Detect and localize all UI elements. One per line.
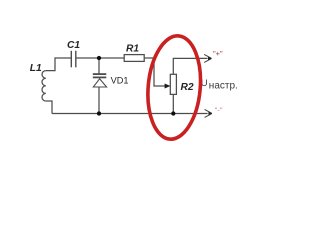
wire R2 bottom (172, 94, 174, 113)
node C junction dot (R2 bottom rail) (171, 111, 175, 115)
potentiometer R2 box (170, 74, 176, 94)
inductor L1 (42, 71, 46, 101)
minus output arrowhead (205, 109, 212, 117)
wiper arrowhead into R2 (165, 84, 171, 89)
svg-text:C1: C1 (67, 40, 80, 51)
diode VD1 triangle (93, 79, 106, 87)
svg-text:"+": "+" (213, 49, 223, 58)
svg-text:"-": "-" (215, 106, 223, 115)
svg-text:R1: R1 (126, 44, 139, 55)
svg-text:R2: R2 (181, 82, 194, 93)
svg-text:VD1: VD1 (111, 76, 129, 86)
bottom rail wire (52, 113, 208, 115)
wire R1 to wiper (144, 58, 165, 86)
capacitor C1 (71, 51, 76, 68)
wire VD1 vertical (98, 58, 100, 114)
plus output arrowhead (204, 54, 211, 62)
wire L1 bottom to bottom rail (46, 101, 52, 114)
red highlight ellipse (144, 34, 205, 142)
wire L1 top to top rail (46, 58, 72, 71)
svg-text:настр.: настр. (209, 81, 238, 92)
wire C1 to R1 (76, 57, 124, 59)
resistor R1 (124, 55, 144, 62)
node A junction dot (C1/VD1/R1) (97, 56, 101, 60)
diode VD1 (varicap) bars (93, 74, 107, 77)
svg-text:L1: L1 (30, 63, 42, 74)
wire R2 top to plus output (173, 58, 207, 74)
node B junction dot (VD1 bottom rail) (97, 111, 101, 115)
